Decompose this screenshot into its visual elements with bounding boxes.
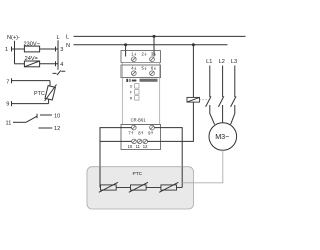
wire right supply vertical: [57, 40, 59, 67]
screw terminals second row: [131, 71, 154, 76]
wire left supply vertical: [14, 41, 16, 64]
svg-text:12: 12: [54, 126, 60, 132]
wire terminal 12: [39, 127, 53, 129]
relay module bottom terminal block: [121, 124, 161, 149]
label PTC: [34, 91, 45, 97]
node L2 label: [219, 59, 225, 65]
wire motor link inside box: [182, 182, 193, 184]
svg-text:F: F: [130, 90, 132, 94]
wire motor thermistor link: [182, 150, 223, 183]
contact arm 11 to 10: [26, 116, 37, 122]
wire sensor 3 to riser: [177, 187, 183, 189]
node minus/AC marking below terminal 4: [57, 67, 59, 70]
label PTC sensors: [133, 171, 143, 177]
contact K1 pole 2: [218, 96, 223, 107]
svg-text:10: 10: [128, 144, 133, 149]
pin numbers 4 5 6: [131, 66, 156, 71]
supply unit 24V box: [24, 61, 39, 67]
contact K1 pole 1: [206, 96, 211, 107]
thermistor sensor 1: [101, 185, 117, 190]
svg-text:11: 11: [6, 120, 12, 126]
wire relay sensor terminal left bottom: [100, 140, 132, 142]
screw terminals top row: [131, 57, 154, 62]
thermistor PTC input symbol: [45, 86, 55, 100]
svg-text:PTC: PTC: [133, 171, 143, 177]
supply unit 230V box: [24, 46, 39, 52]
wire sensor 1 to 2: [116, 187, 130, 189]
node L1 label: [206, 59, 212, 65]
node L supply label: [57, 35, 60, 41]
wire PTC top stub: [49, 81, 51, 87]
junction dot N to relay: [124, 43, 127, 46]
wire sensor riser left inside box: [99, 167, 101, 188]
svg-text:12: 12: [143, 144, 148, 149]
wire sensor 2 to 3: [146, 187, 161, 189]
PTC sensor box in motor: [87, 167, 194, 209]
wire terminal 10: [40, 114, 52, 116]
wire supply to 24V box: [15, 63, 25, 65]
thermistor sensor 2: [131, 185, 147, 190]
wire L rail: [74, 35, 246, 37]
relay LED indicator row 1: [135, 84, 139, 88]
svg-text:L2: L2: [219, 59, 225, 65]
svg-text:PTC: PTC: [34, 91, 45, 97]
wire terminal 11: [13, 121, 26, 123]
wire L rail drop to relay terminal 3: [153, 36, 155, 56]
contactor coil K1: [187, 97, 200, 102]
wire phase L2: [222, 66, 224, 98]
contact K1 pole 3: [231, 96, 236, 107]
relay module CR-B outline top terminal block: [121, 51, 161, 63]
pin numbers 10 11 12: [128, 144, 149, 149]
wire terminal 7 to PTC sensor: [12, 80, 51, 82]
terminal 9: [6, 102, 9, 108]
svg-text:L: L: [57, 35, 60, 41]
relay module second terminal block: [121, 65, 161, 78]
wire relay sensor terminal left top: [100, 128, 132, 188]
pin numbers 7 8 9: [128, 131, 153, 136]
node N(+)- supply label: [7, 35, 20, 41]
value label 24V=: [25, 56, 38, 62]
svg-text:N: N: [66, 43, 70, 49]
value label 230V~: [24, 41, 41, 47]
relay LED indicator row 3: [135, 96, 139, 100]
terminal 11: [6, 120, 12, 126]
wire 230V box to terminal 3: [40, 48, 58, 50]
wire terminal 9 to PTC sensor: [12, 103, 49, 105]
svg-text:3: 3: [60, 47, 63, 53]
motor M1: [209, 123, 237, 151]
wire PTC bottom stub: [48, 99, 50, 103]
junction dot N to contactor coil: [192, 43, 195, 46]
pin numbers 1 2 3: [131, 51, 156, 56]
wire phase L1: [209, 66, 211, 98]
screw terminals bottom row 1: [131, 125, 154, 130]
relay LED indicator row 2: [135, 90, 139, 94]
svg-text:1: 1: [5, 47, 8, 53]
mechanical link dashed: [200, 99, 209, 101]
wire terminal1 to 230V box: [12, 48, 25, 50]
wire 24V box to terminal 4: [40, 63, 58, 65]
svg-text:CR-B61: CR-B61: [131, 117, 147, 122]
thermistor sensor 3: [161, 185, 177, 190]
wire phase L3: [234, 66, 236, 98]
svg-text:M3~: M3~: [215, 132, 229, 141]
svg-text:L1: L1: [206, 59, 212, 65]
svg-text:7: 7: [6, 80, 9, 86]
svg-text:N(+)-: N(+)-: [7, 35, 20, 41]
svg-text:11: 11: [136, 144, 141, 149]
wire sensor riser right inside box: [181, 167, 183, 188]
terminal 3: [55, 47, 57, 52]
terminal 1: [5, 47, 8, 53]
wire relay output to coil return: [148, 102, 194, 141]
wire N rail: [74, 44, 228, 46]
svg-text:10: 10: [54, 114, 60, 120]
node N rail label: [66, 43, 70, 49]
terminal 4: [55, 61, 57, 66]
terminal 10: [54, 114, 60, 120]
screw terminals bottom row 2: [132, 139, 148, 144]
terminal 12: [54, 126, 60, 132]
wire relay sensor terminal right: [154, 128, 182, 188]
wire N rail drop to relay terminal 1: [125, 45, 127, 57]
svg-text:4: 4: [60, 62, 63, 68]
relay type label CR-B: [131, 117, 147, 122]
node L3 label: [231, 59, 237, 65]
relay module body: [122, 62, 159, 124]
wire N rail drop to coil: [192, 45, 194, 98]
node L rail label: [66, 35, 69, 41]
svg-text:L3: L3: [231, 59, 237, 65]
relay label strip marks: [126, 79, 157, 82]
svg-text:L: L: [66, 35, 69, 41]
junction dot L to relay: [153, 35, 156, 38]
svg-text:9: 9: [6, 102, 9, 108]
terminal 7: [6, 80, 9, 86]
